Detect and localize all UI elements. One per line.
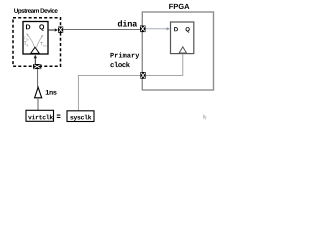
- wire port to delay buffer: [37, 69, 39, 87]
- wire clock port to FF clock: [146, 54, 183, 76]
- pin label D: [174, 27, 178, 31]
- label Upstream Device: [14, 8, 58, 14]
- equals sign: [57, 115, 61, 116]
- wire port to D input: [146, 28, 168, 30]
- pin label Q: [39, 24, 44, 30]
- node sysclk: [67, 111, 94, 122]
- value label Tco: [40, 42, 43, 45]
- wire delay buffer to virtclk: [37, 98, 39, 111]
- FPGA box: [142, 12, 213, 90]
- wire clock into upstream FF with arrowhead: [34, 55, 37, 58]
- wire Q output to port: [48, 29, 56, 31]
- value label Tsu: [24, 37, 26, 40]
- wire sysclk to FPGA clock port: [78, 75, 140, 110]
- timing arc clock-to-D: [27, 35, 35, 48]
- value label Ts: [24, 42, 27, 45]
- port upstream clock: [33, 64, 41, 69]
- value label 1ns: [46, 90, 57, 95]
- flip-flop upstream register: [23, 22, 48, 55]
- port upstream data output: [58, 27, 63, 34]
- clock triangle of upstream FF: [31, 47, 40, 53]
- node virtclk: [26, 110, 54, 121]
- port FPGA clock input: [140, 72, 145, 79]
- port FPGA dina input: [140, 26, 146, 33]
- net label dina: [118, 20, 137, 26]
- net label Primary clock: [110, 52, 139, 59]
- wire dina net: [63, 28, 140, 30]
- pin label D: [26, 24, 30, 29]
- flip-flop FPGA register: [171, 22, 194, 54]
- timing arc clock-to-Q: [37, 36, 43, 48]
- upstream device dashed box: [13, 18, 61, 66]
- delay buffer triangle 1ns: [35, 87, 42, 98]
- label FPGA: [169, 4, 189, 9]
- mouse cursor: [203, 114, 207, 120]
- pin label Q: [186, 27, 190, 32]
- clock triangle of FPGA FF: [179, 47, 186, 53]
